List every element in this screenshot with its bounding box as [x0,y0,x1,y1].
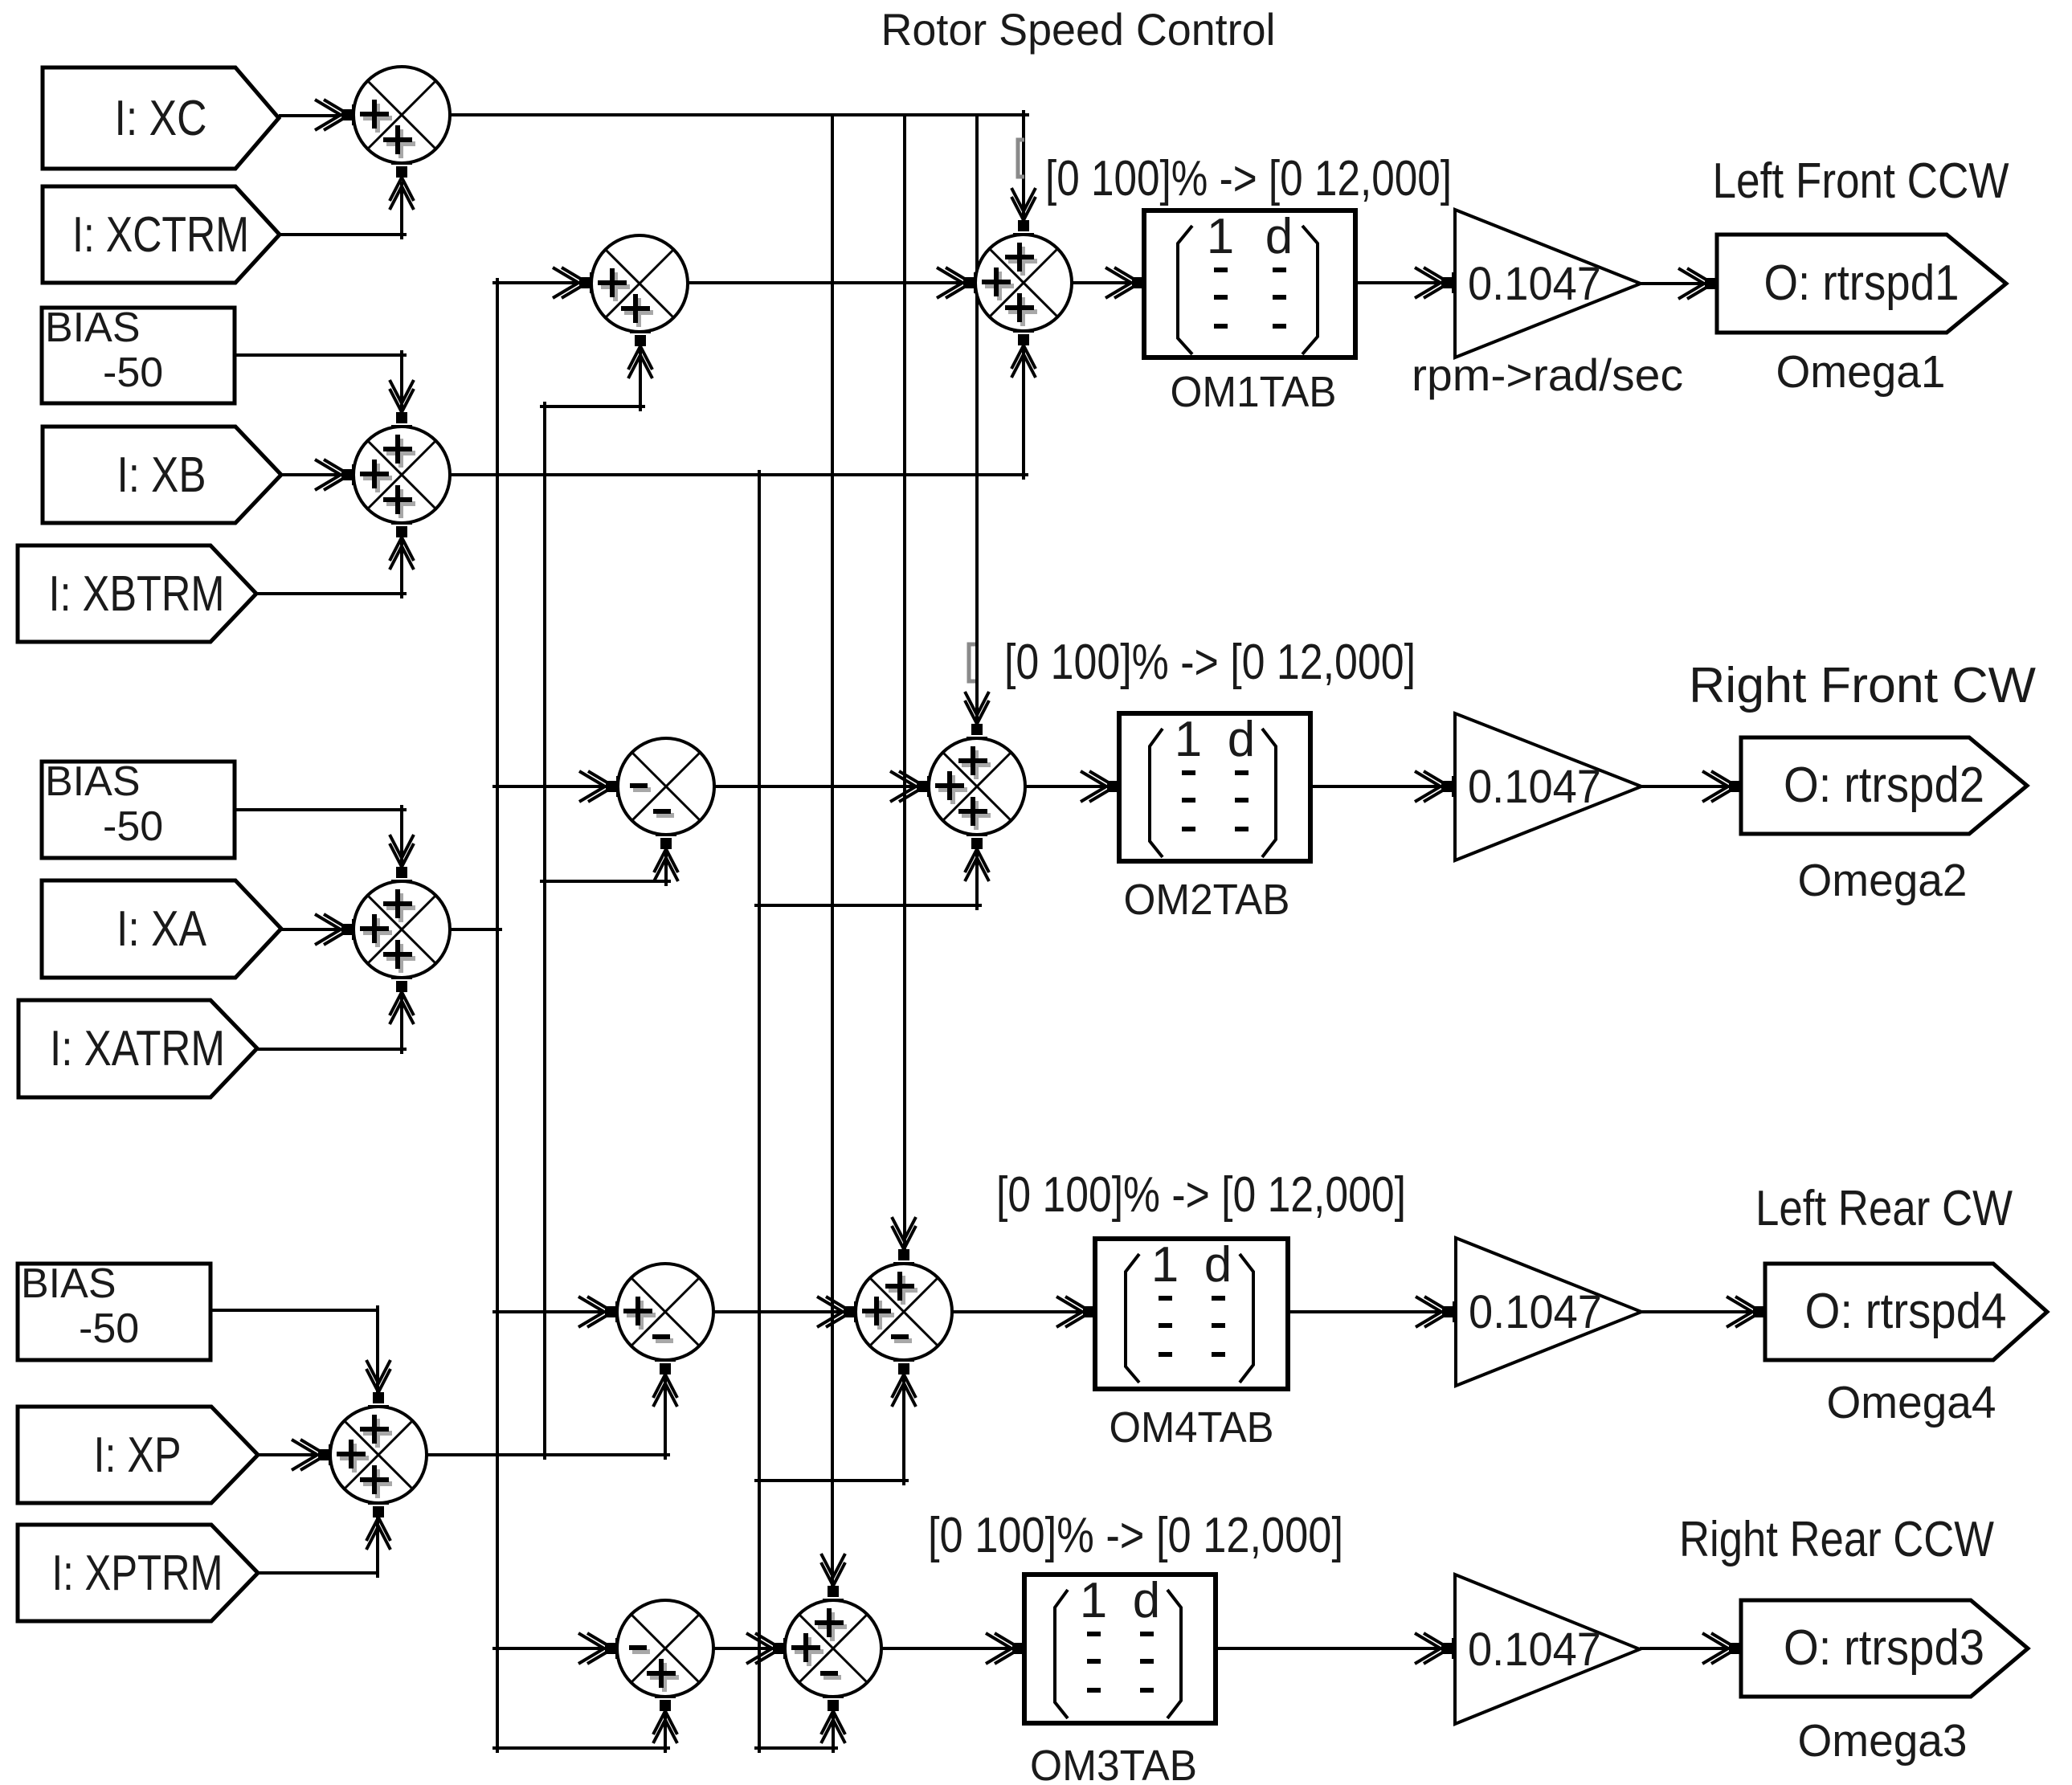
svg-text:Rotor Speed Control: Rotor Speed Control [881,4,1276,55]
summer S9 [617,1264,713,1360]
svg-text:1: 1 [1151,1237,1179,1293]
wire branch to S9 left [492,1310,606,1313]
svg-text:Omega3: Omega3 [1798,1715,1968,1767]
arrowhead into S10 left [854,1301,857,1322]
summer S1 (XC+XCTRM) [354,67,450,163]
wire S11 to S12 [713,1647,774,1650]
arrowhead into OM1TAB [1142,272,1146,293]
wire gain3 to rtrspd4 [1641,1310,1754,1313]
wire XB to S2 [281,473,341,476]
wire riser to S6 bottom [1022,345,1025,480]
arrowhead into rtrspd3 [1739,1638,1743,1659]
arrowhead into S6 bottom [1013,329,1034,333]
arrowhead into S4 bottom [368,1501,389,1505]
wire branch to S10 bottom [754,1479,909,1482]
wire branch to S12 bottom [754,1746,838,1750]
gain block G2 0.1047 [1455,713,1641,860]
arrowhead into S5 left [590,272,593,293]
arrowhead into S11 left [615,1638,619,1659]
wire S12 to OM3TAB [881,1647,1013,1650]
grey bracket row1 [1018,140,1024,177]
arrowhead into S3 left [352,919,355,940]
svg-text:I: XB: I: XB [117,447,206,503]
arrowhead into S2 top [391,425,412,428]
summer S7 [618,738,714,835]
wire bus x=619 XA net [496,278,499,1753]
wire OM4TAB to gain3 [1288,1310,1445,1313]
wire S7 to S8 [715,785,917,788]
wire branch to S5 bottom [540,405,645,408]
arrowhead into S2 bottom [391,521,412,525]
svg-text:[0 100]% -> [0 12,000]: [0 100]% -> [0 12,000] [928,1508,1343,1563]
input block I: XB [43,427,281,523]
arrowhead into gain3 [1453,1301,1456,1322]
arrowhead into S10 bottom [893,1358,914,1362]
arrowhead into S5 bottom [630,330,651,333]
summer S12 (rotor3 mix) [785,1600,881,1697]
svg-text:O: rtrspd2: O: rtrspd2 [1784,758,1984,813]
arrowhead into gain2 [1452,776,1455,797]
wire BIAS3 to S4 top [210,1309,378,1312]
lookup table OM3TAB [1024,1573,1216,1723]
svg-text:Left Rear CW: Left Rear CW [1755,1181,2013,1236]
arrowhead into S8 top [967,737,987,740]
wire BIAS1 to S2 top [235,353,407,357]
svg-text:d: d [1204,1237,1232,1293]
wire S6 to OM1TAB [1072,281,1133,284]
summer S11 [617,1600,713,1697]
wire XBTRM to S2 bottom [256,592,407,595]
arrowhead into S12 top [823,1599,844,1602]
svg-text:I: XATRM: I: XATRM [50,1021,225,1076]
svg-text:1: 1 [1080,1573,1107,1628]
svg-text:O: rtrspd3: O: rtrspd3 [1784,1620,1984,1676]
svg-text:Omega2: Omega2 [1798,855,1968,906]
arrowhead into OM2TAB [1118,776,1121,797]
constant block BIAS -50 (row XB) [42,304,235,403]
wire XP to S4 [258,1453,317,1456]
arrowhead into S4 top [368,1405,389,1408]
summer S3 (XA sum) [354,881,450,978]
wire S10 to OM4TAB [952,1310,1084,1313]
wire S4 output [427,1453,670,1456]
arrowhead into S10 top [893,1262,914,1265]
gain block G3 0.1047 [1456,1238,1641,1386]
wire branch to S11 bottom [492,1746,670,1750]
arrowhead into S8 left [927,776,930,797]
wire OM2TAB to gain2 [1310,785,1444,788]
lookup table OM2TAB [1119,712,1310,861]
wire XA to S3 [281,928,341,931]
input block I: XP [18,1407,258,1503]
svg-text:Left Front CCW: Left Front CCW [1713,153,2009,209]
arrowhead into S1 left [352,104,355,125]
svg-text:-50: -50 [103,803,163,850]
arrowhead into OM4TAB [1093,1301,1097,1322]
svg-text:Omega4: Omega4 [1827,1377,1996,1428]
wire XPTRM to S4 bottom [258,1571,378,1575]
wire node S10 top feed x=1126 [903,115,906,1251]
arrowhead into S7 left [616,776,619,797]
summer S2 (XB sum) [354,427,450,523]
arrowhead into S8 bottom [967,833,987,836]
svg-text:0.1047: 0.1047 [1468,258,1601,310]
svg-text:1: 1 [1175,712,1202,767]
svg-text:OM4TAB: OM4TAB [1110,1403,1274,1452]
wire OM3TAB to gain4 [1216,1647,1444,1650]
wire S2 output [450,473,1028,476]
summer S5 [591,235,688,332]
summer S8 (rotor2 mix) [929,738,1025,835]
svg-text:1: 1 [1207,209,1234,264]
wire BIAS2 to S3 top [235,808,407,811]
arrowhead into S11 bottom [655,1695,676,1698]
svg-text:I: XBTRM: I: XBTRM [49,566,225,622]
wire branch to S7 bottom [540,880,671,883]
svg-text:O: rtrspd4: O: rtrspd4 [1805,1284,2007,1339]
svg-text:0.1047: 0.1047 [1468,761,1601,813]
svg-text:BIAS: BIAS [21,1260,116,1307]
summer S6 (rotor1 mix) [975,235,1072,331]
wire XCTRM to S1 bottom [280,233,407,236]
output block O: rtrspd3 [1741,1600,2028,1697]
svg-text:OM2TAB: OM2TAB [1124,876,1290,924]
input block I: XA [42,880,281,978]
arrowhead into S9 bottom [655,1358,676,1362]
arrowhead into S2 left [352,464,355,485]
svg-text:[0 100]% -> [0 12,000]: [0 100]% -> [0 12,000] [996,1167,1406,1223]
arrowhead into rtrspd2 [1739,776,1743,797]
output block O: rtrspd4 [1765,1264,2047,1360]
wire riser to S9 bottom [664,1374,667,1460]
svg-text:BIAS: BIAS [45,758,141,805]
svg-text:0.1047: 0.1047 [1468,1624,1601,1676]
wire XATRM to S3 bottom [257,1048,407,1051]
wire branch to S5 left [492,281,580,284]
svg-text:0.1047: 0.1047 [1469,1286,1602,1338]
svg-text:d: d [1265,209,1293,264]
arrowhead into S9 left [615,1301,619,1322]
arrowhead into rtrspd1 [1715,273,1718,294]
input block I: XC [43,67,279,169]
gain block G1 0.1047 [1455,210,1641,357]
input block I: XPTRM [18,1525,258,1621]
output block O: rtrspd2 [1741,737,2027,834]
arrowhead into S6 left [974,272,977,293]
svg-text:Right Front CW: Right Front CW [1689,658,2036,713]
grey bracket row2 [969,644,975,681]
svg-text:d: d [1228,712,1255,767]
svg-text:I: XC: I: XC [115,91,207,146]
wire OM1TAB to gain1 [1355,281,1444,284]
svg-text:I: XP: I: XP [94,1428,182,1483]
wire S5 to S6 [688,281,964,284]
input block I: XBTRM [18,545,256,642]
wire node S6 top feed [1022,110,1025,223]
input block I: XATRM [18,1000,257,1097]
wire branch to S8 bottom [754,904,982,907]
arrowhead into S12 bottom [823,1695,844,1698]
constant block BIAS -50 (row XA) [42,758,235,858]
svg-text:Omega1: Omega1 [1776,346,1946,398]
svg-text:I: XA: I: XA [116,901,207,957]
wire bus x=945 XB net [758,470,761,1753]
arrowhead into gain1 [1452,272,1455,293]
svg-text:-50: -50 [79,1305,139,1352]
svg-text:BIAS: BIAS [45,304,141,351]
arrowhead into S7 bottom [656,833,676,836]
svg-text:[0 100]% -> [0 12,000]: [0 100]% -> [0 12,000] [1004,635,1416,690]
summer S10 (rotor4 mix) [856,1264,952,1360]
summer S4 (XP sum) [330,1407,427,1503]
wire S9 to S10 [713,1310,844,1313]
arrowhead into S3 top [391,880,412,883]
output block O: rtrspd1 [1717,235,2006,333]
arrowhead into gain4 [1452,1638,1455,1659]
arrowhead into OM3TAB [1023,1638,1026,1659]
arrowhead into S3 bottom [391,976,412,979]
wire S1 output bus [450,113,1029,116]
wire branch to S7 left [492,785,607,788]
svg-text:rpm->rad/sec: rpm->rad/sec [1412,349,1683,400]
arrowhead into S1 bottom [391,161,412,165]
wire S8 to OM2TAB [1026,785,1108,788]
svg-text:O: rtrspd1: O: rtrspd1 [1764,255,1960,311]
svg-text:I: XPTRM: I: XPTRM [52,1546,223,1601]
constant block BIAS -50 (row XP) [18,1260,210,1360]
wire gain2 to rtrspd2 [1641,785,1730,788]
svg-text:[0 100]% -> [0 12,000]: [0 100]% -> [0 12,000] [1045,151,1452,206]
wire S3 output to bus x=619 [450,928,502,931]
wire node S8 top feed x=1216 [975,115,979,725]
lookup table OM4TAB [1095,1237,1288,1389]
wire gain4 to rtrspd3 [1640,1647,1730,1650]
svg-text:Right Rear CCW: Right Rear CCW [1679,1512,1994,1567]
arrowhead into S4 left [329,1444,332,1465]
svg-text:I: XCTRM: I: XCTRM [72,207,249,263]
wire XC to S1 [279,114,341,117]
lookup table OM1TAB [1144,209,1355,357]
input block I: XCTRM [43,186,280,283]
gain block G4 0.1047 [1455,1575,1640,1724]
svg-text:d: d [1133,1573,1160,1628]
svg-text:OM3TAB: OM3TAB [1030,1742,1197,1785]
wire bus x=678 XP net [543,402,546,1460]
svg-text:OM1TAB: OM1TAB [1171,368,1337,416]
svg-text:-50: -50 [103,349,163,396]
wire branch to S11 left [492,1647,606,1650]
arrowhead into rtrspd4 [1763,1301,1767,1322]
arrowhead into S12 left [783,1638,787,1659]
wire gain1 to rtrspd1 [1641,282,1706,285]
wire node S12 top feed x=1036 [831,115,834,1587]
arrowhead into S6 top [1013,233,1034,236]
